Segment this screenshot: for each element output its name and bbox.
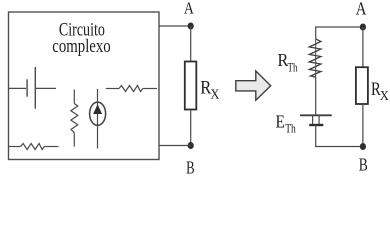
- node B (right): [360, 143, 366, 150]
- wire node A to RX (right): [362, 27, 364, 67]
- wire bottom (Thevenin): [315, 146, 363, 148]
- wire box to node A: [159, 25, 191, 27]
- battery V1 long plate: [34, 67, 36, 109]
- wire top (Thevenin): [316, 26, 363, 28]
- label ETh: [276, 111, 297, 135]
- resistor vertical (inside box): [71, 90, 78, 147]
- resistor horizontal bottom-left (inside box): [9, 144, 59, 150]
- wire top-left down to RTh: [315, 26, 317, 38]
- battery ETh short plate: [309, 124, 323, 126]
- svg-text:B: B: [359, 155, 368, 175]
- battery ETh cell body: [313, 115, 320, 125]
- node B (left): [188, 142, 194, 149]
- resistor RX (left, rectangle): [185, 62, 197, 110]
- svg-text:A: A: [184, 0, 195, 18]
- label RTh: [278, 50, 299, 75]
- label RX (left): [200, 78, 219, 101]
- node A (right): [360, 24, 366, 31]
- battery V1 right lead: [36, 87, 56, 89]
- wire battery to bottom: [315, 125, 317, 147]
- battery ETh long plate: [300, 114, 332, 116]
- wire RX to node B: [190, 110, 192, 146]
- node A (left): [188, 23, 194, 30]
- wire RTh to battery: [315, 77, 317, 115]
- wire box to node B: [159, 145, 191, 147]
- svg-text:Th: Th: [285, 122, 296, 136]
- current source I1: [90, 89, 106, 149]
- wire node A to RX: [190, 26, 192, 62]
- svg-text:X: X: [210, 86, 219, 101]
- svg-text:Th: Th: [288, 61, 299, 75]
- battery V1 short plate: [26, 79, 28, 96]
- arrow (implication): [236, 71, 271, 100]
- battery V1 left lead: [9, 87, 27, 89]
- svg-text:A: A: [356, 0, 367, 19]
- label: Circuito complexo: [52, 20, 110, 57]
- resistor RX (right, rectangle): [356, 67, 368, 104]
- resistor horizontal top-right (inside box): [106, 86, 157, 92]
- svg-text:E: E: [276, 111, 285, 131]
- resistor RTh (coil zigzag): [309, 39, 321, 78]
- svg-text:complexo: complexo: [52, 36, 110, 57]
- svg-text:X: X: [380, 88, 389, 103]
- wire RX to node B (right): [362, 104, 364, 147]
- box: circuito complexo: [9, 12, 160, 160]
- label RX (right): [371, 80, 389, 103]
- svg-text:B: B: [186, 157, 195, 177]
